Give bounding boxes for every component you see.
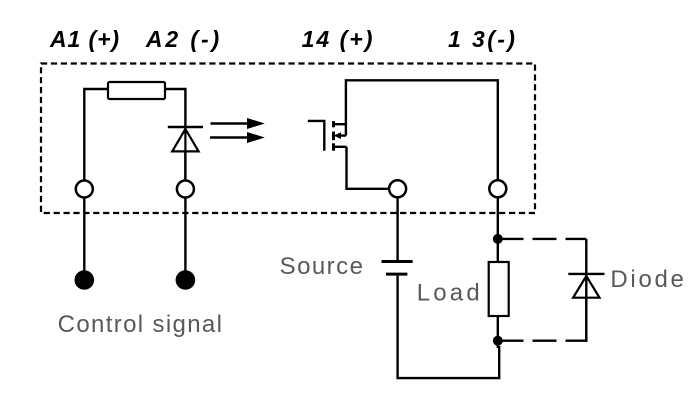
svg-text:Source: Source: [280, 253, 365, 280]
svg-text:A1 (+): A1 (+): [49, 26, 120, 52]
svg-text:Diode: Diode: [610, 266, 686, 293]
svg-text:14 (+): 14 (+): [302, 26, 375, 52]
svg-text:A2 (-): A2 (-): [145, 26, 222, 52]
svg-text:Load: Load: [417, 280, 483, 307]
svg-text:Control signal: Control signal: [58, 311, 224, 338]
svg-text:1 3(-): 1 3(-): [448, 26, 517, 52]
